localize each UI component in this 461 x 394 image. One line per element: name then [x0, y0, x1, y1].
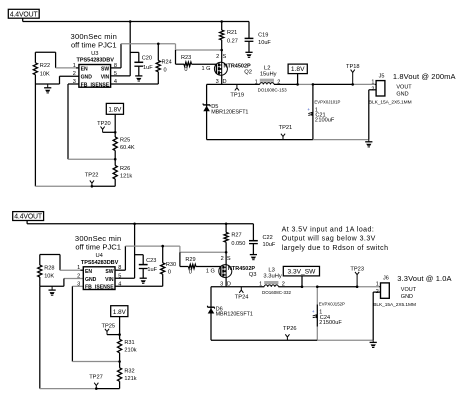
ground (under 10uF cap)	[250, 254, 257, 256]
net label 3.3V_SW (output)	[283, 266, 319, 276]
svg-text:VOUT: VOUT	[401, 287, 417, 293]
svg-text:1uF: 1uF	[147, 267, 157, 273]
svg-text:SW: SW	[101, 67, 109, 73]
resistor R25 60.4K	[113, 137, 117, 151]
svg-text:At 3.5V input and 1A load:: At 3.5V input and 1A load:	[282, 226, 375, 233]
svg-text:TP18: TP18	[346, 64, 360, 70]
svg-text:10K: 10K	[44, 274, 54, 280]
svg-text:BLK_15A_2X5.1MM: BLK_15A_2X5.1MM	[369, 100, 412, 106]
svg-text:largely due to Rdson of switch: largely due to Rdson of switch	[282, 245, 389, 252]
svg-text:TP21: TP21	[279, 125, 293, 131]
test point TP18	[352, 72, 354, 84]
svg-text:0: 0	[184, 67, 187, 73]
ground (under input cap)	[140, 277, 147, 279]
svg-text:U4: U4	[95, 253, 103, 259]
wire: bottom ground rail	[211, 339, 317, 341]
wire: GND net	[64, 278, 83, 280]
ground (IC gnd / divider)	[51, 286, 53, 290]
wire: switch node to inductor	[211, 286, 264, 288]
svg-text:210k: 210k	[124, 347, 136, 353]
wire: left rail down to divider bottom	[34, 84, 36, 186]
inductor L2 15uHy	[260, 79, 274, 82]
svg-text:1: 1	[259, 282, 262, 288]
svg-text:1: 1	[255, 79, 258, 85]
svg-text:0.27: 0.27	[227, 39, 238, 45]
svg-text:TP25: TP25	[102, 324, 116, 330]
svg-text:FB: FB	[81, 82, 88, 88]
svg-text:1: 1	[73, 63, 76, 69]
wire: 4.4V rail	[26, 221, 28, 224]
wire: output run	[278, 286, 302, 288]
svg-text:0: 0	[189, 269, 192, 275]
svg-text:Output will sag below 3.3V: Output will sag below 3.3V	[282, 236, 376, 243]
svg-text:S: S	[227, 256, 231, 262]
svg-text:R21: R21	[227, 30, 237, 36]
svg-text:+: +	[307, 108, 310, 113]
svg-text:MBR120ESFT1: MBR120ESFT1	[216, 312, 253, 318]
wire: switch node to inductor	[207, 83, 260, 85]
capacitor C20 1uF	[130, 51, 139, 53]
svg-text:ISENSE: ISENSE	[91, 82, 110, 88]
svg-text:BLK_15A_2X5.1MM: BLK_15A_2X5.1MM	[373, 302, 416, 308]
test point TP23	[356, 275, 358, 287]
wire: GND net	[60, 75, 79, 77]
resistor R21 0.27	[221, 22, 223, 31]
ground (output rail)	[368, 140, 370, 142]
svg-text:2: 2	[216, 54, 219, 60]
test point TP26	[286, 337, 288, 340]
diode D5 MBR120ESFT1	[206, 84, 208, 139]
test point TP21	[282, 137, 284, 140]
svg-text:10uF: 10uF	[263, 242, 276, 248]
test point TP27	[95, 386, 97, 389]
wire: ISENSE net	[115, 285, 163, 287]
svg-text:121k: 121k	[124, 376, 136, 382]
svg-text:1.8Vout @ 200mA: 1.8Vout @ 200mA	[393, 72, 456, 81]
ground (under input cap)	[135, 75, 142, 77]
svg-text:TPS54283DBV: TPS54283DBV	[77, 58, 115, 64]
svg-text:2: 2	[73, 71, 76, 77]
resistor R22 10K	[34, 52, 36, 63]
svg-text:4.4VOUT: 4.4VOUT	[14, 214, 43, 221]
test point TP25	[106, 332, 108, 335]
svg-text:3.3V_SW: 3.3V_SW	[287, 268, 316, 275]
svg-text:FB: FB	[85, 285, 92, 291]
svg-text:5: 5	[118, 274, 121, 280]
svg-text:60.4K: 60.4K	[120, 145, 135, 151]
net label 4.4VOUT (U4 section)	[13, 212, 44, 221]
svg-text:J5: J5	[379, 73, 385, 79]
svg-text:S: S	[223, 54, 227, 60]
svg-text:R26: R26	[120, 166, 130, 172]
wire: left rail down to divider bottom	[39, 286, 41, 388]
svg-text:TP26: TP26	[283, 326, 297, 332]
svg-text:1 G: 1 G	[206, 268, 215, 274]
wire: ISENSE net	[111, 83, 159, 85]
resistor R32 121k	[118, 368, 122, 382]
svg-text:2: 2	[77, 274, 80, 280]
svg-text:R28: R28	[44, 265, 54, 271]
svg-text:VIN: VIN	[101, 75, 110, 81]
transistor Q2 NTR4502P (PMOS)	[221, 50, 223, 62]
svg-text:GND: GND	[396, 92, 408, 98]
resistor R29 0	[179, 252, 181, 266]
svg-text:C22: C22	[263, 235, 273, 241]
net label 1.8V (output)	[288, 64, 307, 74]
svg-text:1: 1	[77, 265, 80, 271]
connector J5 BLK_15A_2X5.1MM	[376, 81, 385, 96]
svg-text:1uF: 1uF	[143, 65, 153, 71]
resistor R30 0	[162, 246, 164, 263]
wire: SW net (grey)	[111, 67, 121, 69]
svg-text:C23: C23	[146, 258, 156, 264]
svg-text:DO1608C-332: DO1608C-332	[262, 290, 292, 295]
svg-text:MBR120ESFT1: MBR120ESFT1	[211, 109, 248, 115]
svg-text:0: 0	[164, 67, 167, 73]
svg-text:1.8V: 1.8V	[291, 66, 305, 73]
svg-text:121k: 121k	[120, 174, 132, 180]
svg-text:off time PJC1: off time PJC1	[71, 40, 117, 49]
resistor R28 10K	[39, 255, 41, 266]
svg-text:5: 5	[114, 71, 117, 77]
svg-text:R32: R32	[124, 368, 134, 374]
svg-text:3: 3	[73, 79, 76, 85]
svg-text:J6: J6	[383, 276, 389, 282]
wire: SW net (grey)	[115, 269, 125, 271]
ground (under 10uF cap)	[245, 51, 252, 53]
connector J6 BLK_15A_2X5.1MM	[381, 283, 390, 298]
svg-text:TP27: TP27	[89, 375, 103, 381]
net label 1.8V (feedback divider)	[111, 306, 128, 317]
wire: FB net	[72, 285, 83, 287]
svg-text:10K: 10K	[40, 71, 50, 77]
svg-text:R30: R30	[166, 262, 176, 268]
svg-text:1.8V: 1.8V	[108, 107, 122, 114]
svg-text:100uF: 100uF	[318, 118, 334, 124]
svg-text:1: 1	[371, 79, 374, 85]
svg-text:R22: R22	[40, 63, 50, 69]
op-amp / regulator IC U3 TPS54283DBV	[79, 65, 111, 88]
diode D6 MBR120ESFT1	[210, 287, 212, 341]
svg-text:TP24: TP24	[235, 295, 249, 301]
svg-text:U3: U3	[91, 51, 98, 57]
svg-text:+: +	[312, 310, 315, 315]
svg-text:SW: SW	[105, 269, 113, 275]
svg-text:EN: EN	[85, 269, 92, 275]
svg-text:GND: GND	[85, 277, 97, 283]
resistor R31 210k	[118, 339, 122, 353]
capacitor C19 10uF	[248, 22, 250, 39]
wire: output run	[274, 83, 298, 85]
svg-text:TP22: TP22	[85, 172, 99, 178]
test point TP20	[102, 129, 104, 132]
capacitor C21 100uF (polarized)	[312, 84, 314, 139]
svg-text:R23: R23	[181, 55, 191, 61]
capacitor C22 10uF	[252, 224, 254, 241]
svg-text:ISENSE: ISENSE	[95, 285, 114, 291]
op-amp / regulator IC U4 TPS54283DBV	[83, 267, 115, 290]
svg-text:EN: EN	[81, 67, 88, 73]
svg-text:VIN: VIN	[105, 277, 114, 283]
svg-text:EVPX0J101P: EVPX0J101P	[314, 99, 340, 104]
svg-text:R25: R25	[120, 138, 130, 144]
svg-text:1.8V: 1.8V	[113, 309, 127, 316]
svg-text:3: 3	[77, 281, 80, 287]
capacitor C23 1uF	[135, 254, 144, 256]
svg-text:Q2: Q2	[244, 70, 252, 76]
wire: VIN drop	[129, 22, 131, 76]
inductor L3 3.3uHy	[264, 281, 278, 284]
svg-text:C20: C20	[142, 56, 152, 62]
resistor R26 121k	[113, 166, 117, 180]
wire: FB net	[68, 83, 79, 85]
resistor R23 0	[175, 50, 177, 64]
svg-text:TP20: TP20	[97, 121, 111, 127]
svg-text:C19: C19	[258, 33, 268, 39]
resistor R27 0.050	[225, 224, 227, 233]
ground (IC gnd / divider)	[47, 84, 49, 88]
test point TP19	[236, 84, 238, 87]
ground (output rail)	[372, 340, 374, 342]
test point TP22	[91, 183, 93, 186]
svg-text:1: 1	[376, 282, 379, 288]
svg-text:2: 2	[221, 256, 224, 262]
net label 4.4VOUT (U3 section)	[8, 9, 39, 18]
svg-text:R29: R29	[185, 257, 195, 263]
svg-text:GND: GND	[81, 75, 93, 81]
wire: J pin2 to gnd	[373, 291, 380, 293]
svg-text:DO1608C-153: DO1608C-153	[258, 88, 288, 93]
svg-text:1500uF: 1500uF	[323, 320, 343, 326]
svg-text:0: 0	[168, 270, 171, 276]
transistor Q3 NTR4502P (PMOS)	[225, 252, 227, 264]
capacitor C24 1500uF (polarized)	[316, 287, 318, 305]
svg-text:GND: GND	[401, 294, 413, 300]
svg-text:R24: R24	[162, 60, 172, 66]
svg-text:EVPX0J152P: EVPX0J152P	[319, 302, 345, 307]
wire: EN net	[40, 254, 60, 256]
wire: VIN drop	[134, 224, 136, 278]
svg-text:10uF: 10uF	[258, 40, 271, 46]
svg-text:4.4VOUT: 4.4VOUT	[10, 11, 39, 18]
svg-text:1 G: 1 G	[201, 66, 210, 72]
svg-text:TP23: TP23	[350, 267, 364, 273]
svg-text:3.3Vout @ 1.0A: 3.3Vout @ 1.0A	[397, 274, 451, 283]
svg-text:3.3uHy: 3.3uHy	[263, 274, 281, 280]
wire: EN net	[35, 51, 55, 53]
svg-text:15uHy: 15uHy	[260, 71, 277, 77]
svg-text:VOUT: VOUT	[396, 85, 412, 91]
svg-text:Q3: Q3	[249, 272, 257, 278]
wire: J pin2 to gnd	[369, 89, 376, 91]
svg-text:R31: R31	[124, 340, 134, 346]
wire: bottom ground rail	[207, 139, 313, 141]
wire: 4.4V rail	[22, 18, 24, 21]
svg-text:TPS54283DBV: TPS54283DBV	[81, 260, 119, 266]
svg-text:off time PJC1: off time PJC1	[75, 243, 121, 252]
test point TP24	[240, 287, 242, 290]
svg-text:TP19: TP19	[230, 92, 244, 98]
svg-text:0.050: 0.050	[231, 241, 245, 247]
net label 1.8V (feedback divider)	[106, 103, 123, 114]
svg-text:R27: R27	[231, 232, 241, 238]
resistor R24 0	[157, 44, 159, 61]
